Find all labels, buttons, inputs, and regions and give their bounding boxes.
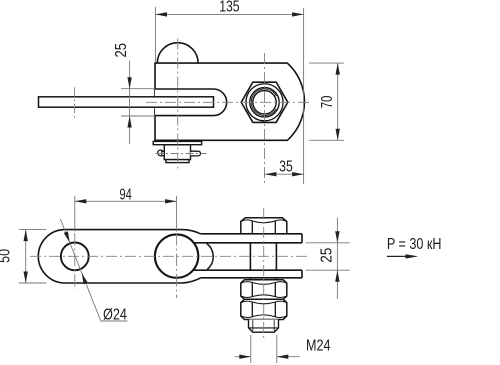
centerline cotter pin (top view) — [156, 153, 207, 155]
link plate outline with neck fillets (front view) — [38, 230, 201, 283]
svg-text:25: 25 — [113, 43, 130, 58]
centerline boss axis (front) — [176, 233, 178, 298]
svg-text:94: 94 — [119, 187, 132, 204]
dim 25 (top view slot): extension lines — [121, 88, 155, 90]
load arrow — [387, 255, 415, 257]
dim 135: dimension line — [156, 13, 304, 15]
centerline horizontal (top view axis) — [146, 101, 311, 103]
svg-text:135: 135 — [219, 0, 239, 16]
thread minor lines — [253, 320, 274, 331]
dim 25 line + arrows — [129, 61, 131, 145]
centerline vertical pin axis (top view) — [177, 39, 179, 170]
nut N2 (front view) — [241, 299, 287, 319]
svg-text:P = 30 кН: P = 30 кН — [387, 236, 442, 253]
dim 94 — [75, 200, 177, 202]
pin P1 dome head (top view bump) — [157, 43, 198, 63]
centerline vertical bolt axis (top view) — [264, 53, 266, 185]
svg-text:70: 70 — [319, 95, 336, 108]
svg-text:25: 25 — [319, 248, 336, 263]
pin boss circle (front view) — [155, 234, 198, 277]
bolt shank in slot (front view) — [250, 243, 276, 270]
washer under housing (top view of pin bottom) — [153, 141, 201, 144]
clevis slot (top view) — [155, 89, 227, 116]
centerline bolt axis (front) — [263, 208, 265, 340]
svg-text:50: 50 — [0, 249, 13, 263]
centerline horizontal (front view axis) — [30, 255, 307, 257]
nut N1 (front view) — [241, 280, 287, 300]
cotter pin right end — [191, 151, 201, 156]
dim 135: extension lines — [155, 7, 157, 62]
hex nut U-bolt (top view) — [241, 82, 288, 122]
clevis slot faces (front view) — [192, 242, 302, 244]
tongue outer faces (front view) — [201, 233, 302, 235]
dim 70 line — [337, 63, 339, 140]
bar / link plate tongue (top view) — [39, 97, 214, 107]
bolt hole circle — [253, 91, 276, 114]
centerline hole axis (front) — [74, 233, 76, 290]
boss runout arc in slot — [207, 243, 214, 269]
stub chamfer line — [249, 327, 279, 329]
dim 35 — [265, 173, 304, 175]
centerline hole axis (top view) — [74, 87, 76, 118]
thread arc (3/4) — [251, 89, 276, 116]
dim 70: extension lines — [309, 62, 344, 64]
svg-text:Ø24: Ø24 — [103, 306, 127, 323]
dim Ø24 leader — [60, 219, 127, 321]
clevis mouth end verticals — [301, 234, 303, 243]
hex chamfer circle — [246, 84, 283, 121]
dim 50 — [19, 229, 46, 231]
svg-text:35: 35 — [279, 158, 293, 175]
thread stub below nuts (front view) — [249, 320, 279, 333]
bolt hex head (front view) — [241, 218, 287, 234]
cotter pin left end (ring) — [158, 150, 164, 156]
ext lines for 94 (solid above plate) — [75, 196, 177, 232]
washer face circle — [250, 88, 279, 117]
svg-text:M24: M24 — [306, 337, 331, 354]
pin nut body (top view, below washer) — [164, 145, 190, 160]
housing body (top view) — [155, 63, 304, 140]
hole Ø24 (front view) — [61, 243, 89, 271]
dim 25 (front view slot) — [306, 242, 350, 244]
dim M24 — [250, 335, 252, 363]
